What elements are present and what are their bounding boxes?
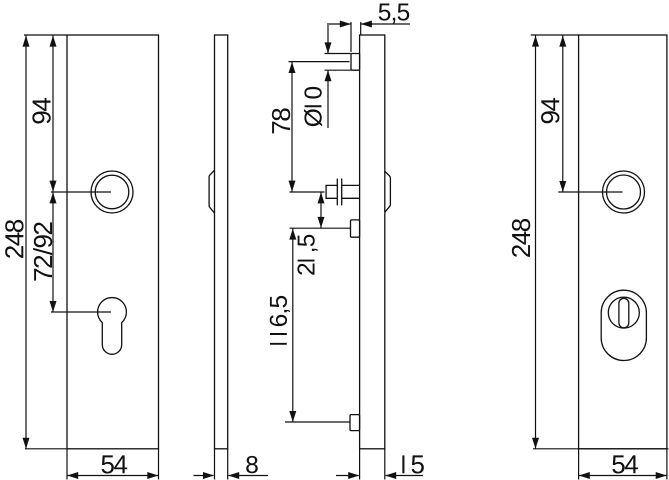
dim 5,5 lines <box>329 23 410 25</box>
arrow 248 right top <box>532 36 539 47</box>
dim line 248 left <box>25 35 27 449</box>
left plate outline <box>67 35 159 449</box>
label 15 <box>402 455 423 473</box>
label 78 <box>272 108 290 133</box>
arrow 5,5 west <box>340 21 351 28</box>
dim line 94 / 72-92 left <box>52 35 54 312</box>
right top extension line <box>531 34 579 36</box>
label 94 right <box>541 98 559 123</box>
spindle bar left section <box>326 185 337 198</box>
cylinder centreline left <box>51 311 111 313</box>
right plate handle hole outer ring <box>603 171 645 213</box>
arrow 248 right bottom <box>532 438 539 449</box>
left plate lower extension lines <box>67 449 159 480</box>
dim line 116,5 <box>292 228 294 422</box>
side view 8mm handle boss bulge <box>209 170 214 213</box>
right bottom extension line <box>533 448 669 450</box>
arrow 72/92 top <box>50 192 57 203</box>
handle centreline right <box>558 191 622 193</box>
arrow dia10 top <box>325 42 332 53</box>
security rosette oval <box>601 290 646 360</box>
dim line 54 left <box>67 475 159 477</box>
arrow 8 east <box>228 472 239 479</box>
keyway slot <box>619 298 629 328</box>
dim 15 arrows lines <box>336 475 423 477</box>
arrow 78 top <box>289 62 296 73</box>
arrow 116,5 top <box>289 229 296 240</box>
left bottom extension line <box>25 448 67 450</box>
middle fixing stub <box>351 220 360 237</box>
label 72/92 <box>33 222 52 280</box>
arrow 8 west <box>203 472 214 479</box>
arrow 15 east <box>385 472 396 479</box>
label 248 left <box>5 220 23 258</box>
dim line 21,5 <box>320 192 322 228</box>
arrow 54 right west <box>579 472 590 479</box>
arrow 5,5 east <box>361 21 372 28</box>
arrow 21,5 bottom <box>318 217 325 228</box>
left plate euro cylinder keyhole <box>98 298 127 355</box>
bottom pin centreline <box>285 421 350 423</box>
arrow 54 right east <box>656 472 667 479</box>
arrow 94 left bottom <box>50 181 57 192</box>
label 116,5 <box>270 296 290 345</box>
spindle collar <box>337 179 341 206</box>
side view 15mm handle boss bulge <box>385 171 391 212</box>
left plate handle hole inner circle <box>95 175 129 209</box>
handle centreline left <box>51 191 111 193</box>
left plate handle hole outer ring <box>91 171 133 213</box>
label 5,5 <box>379 4 409 24</box>
arrow 94 left top <box>50 36 57 47</box>
dim line 94 right <box>562 35 564 192</box>
dim line 78 <box>291 62 293 193</box>
arrow 21,5 top <box>318 192 325 203</box>
side view 15mm plate outline <box>360 35 385 449</box>
left top extension line <box>24 34 67 36</box>
spindle centreline <box>290 191 325 193</box>
label 94 left <box>32 98 50 123</box>
side 8 lower extension lines <box>215 449 228 480</box>
arrow 78 bottom <box>289 181 296 192</box>
label 8 <box>246 456 257 473</box>
right plate lower extension lines <box>579 449 667 480</box>
bottom fixing pin <box>350 415 360 431</box>
arrow 54 left east <box>147 472 158 479</box>
side view 8mm plate outline <box>215 35 228 449</box>
dia10 upper arrow line <box>327 23 329 53</box>
label 54 left <box>102 455 128 473</box>
label 54 right <box>612 455 638 473</box>
side 15 lower extension lines <box>360 449 385 480</box>
dim line 54 right <box>579 475 667 477</box>
arrow 94 right top <box>559 36 566 47</box>
arrow 72/92 bottom <box>50 301 57 312</box>
label 21,5 <box>297 235 317 275</box>
arrow 15 west <box>348 472 359 479</box>
cylinder ring circle <box>608 297 639 328</box>
right plate outline <box>579 35 667 449</box>
arrow 116,5 bottom <box>289 411 296 422</box>
spindle bar right section <box>342 185 360 198</box>
ext lines pin top/bottom <box>325 54 351 71</box>
top pin centreline <box>289 61 350 63</box>
right plate handle hole inner circle <box>607 175 641 209</box>
label dia 10 <box>304 87 322 127</box>
ext line plate face <box>360 22 362 35</box>
arrow dia10 bottom <box>325 70 332 81</box>
arrow 248 left bottom <box>23 438 30 449</box>
middle stub centreline <box>290 227 351 229</box>
arrow 54 left west <box>67 472 78 479</box>
dim line 248 right <box>535 35 537 449</box>
dim 8 arrows lines <box>194 475 269 477</box>
dia10 lower arrow line <box>327 71 329 129</box>
arrow 248 left top <box>23 36 30 47</box>
top fixing pin <box>351 54 360 71</box>
ext line pin face <box>350 22 352 52</box>
arrow 94 right bottom <box>559 181 566 192</box>
label 248 right <box>512 219 530 257</box>
